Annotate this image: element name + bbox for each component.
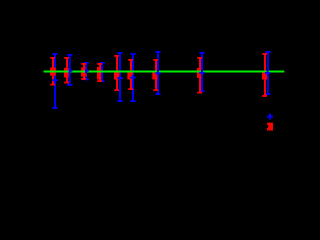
- blue plus marker point 5: [117, 75, 122, 80]
- legend blue plus marker: [267, 114, 273, 120]
- red error bar point 5: [114, 55, 120, 91]
- blue error bar point 9: [265, 51, 270, 95]
- blue plus marker point 3: [85, 68, 89, 73]
- blue plus marker point 7: [155, 71, 160, 76]
- red error bar point 4: [97, 63, 102, 82]
- red error bar point 2: [64, 57, 69, 84]
- red error bar point 6: [127, 59, 133, 90]
- blue error bar point 5: [117, 52, 122, 102]
- red error bar point 1: [50, 57, 56, 86]
- blue error bar point 7: [155, 51, 160, 95]
- blue error bar point 6: [130, 53, 135, 102]
- blue plus marker point 8: [199, 70, 204, 75]
- red error bar point 3: [81, 63, 87, 80]
- red error bar point 8: [197, 57, 202, 94]
- blue error bar point 8: [199, 52, 204, 92]
- blue error bar point 2: [67, 54, 72, 86]
- blue plus marker point 2: [69, 68, 73, 73]
- blue error bar point 4: [99, 62, 104, 82]
- green reference line: [44, 71, 285, 73]
- red error bar point 7: [152, 59, 158, 91]
- blue error bar point 1: [52, 53, 57, 109]
- blue plus marker point 6: [130, 75, 135, 80]
- legend red square marker: [267, 123, 273, 131]
- red error bar point 9: [262, 53, 267, 97]
- blue plus marker point 1: [52, 78, 57, 83]
- blue error bar point 3: [83, 62, 88, 80]
- blue plus marker point 9: [265, 70, 270, 75]
